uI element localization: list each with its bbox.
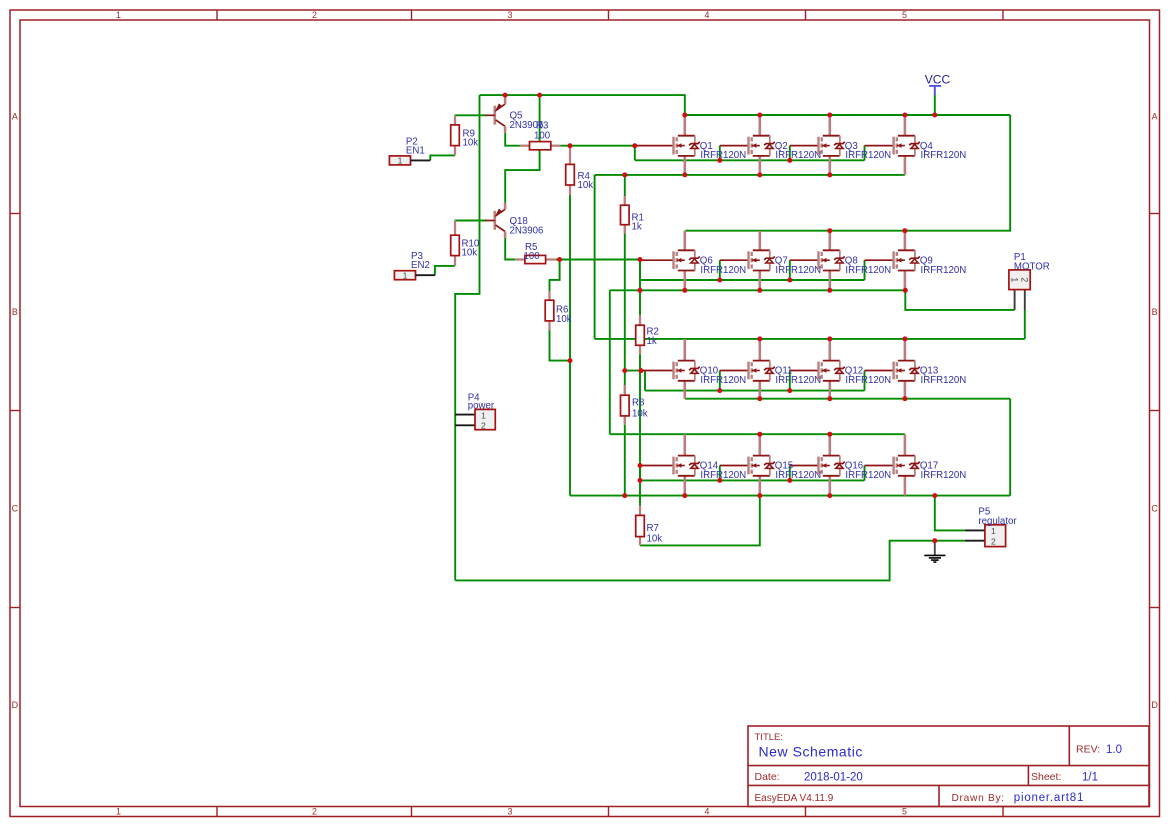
junction at 829.8,398.7: [827, 396, 832, 401]
junction at 829.8,338.9: [827, 336, 832, 341]
junction at 719.8,390.6: [717, 388, 722, 393]
svg-text:IRFR120N: IRFR120N: [845, 150, 891, 161]
svg-text:IRFR120N: IRFR120N: [845, 375, 891, 386]
svg-text:EN1: EN1: [406, 145, 425, 156]
junction at 829.8,495.6: [827, 493, 832, 498]
junction at 829.8,434.2: [827, 432, 832, 437]
svg-text:IRFR120N: IRFR120N: [845, 470, 891, 481]
junction at 759.8,115.0: [757, 113, 762, 118]
svg-text:4: 4: [705, 10, 710, 20]
svg-text:1: 1: [398, 156, 403, 166]
junction at 684.8,290.3: [682, 288, 687, 293]
wire P3 to R10 bottom: [435, 266, 455, 275]
wire R4 column (row1 gate to row4 source rail): [569, 146, 571, 496]
svg-text:C: C: [12, 504, 19, 514]
transistor Q4 (IRFR120N N-MOSFET): [894, 115, 967, 175]
connector P1 (MOTOR): [1009, 252, 1050, 310]
transistor Q1 (IRFR120N N-MOSFET): [674, 115, 747, 175]
junction at 829.8,115.0: [827, 113, 832, 118]
junction at 640.0,465.5: [638, 463, 643, 468]
transistor Q3 (IRFR120N N-MOSFET): [819, 115, 892, 175]
resistor R10: [451, 221, 480, 266]
wire left column from top rail to P4: [455, 95, 479, 580]
resistor R3: [520, 121, 561, 150]
svg-text:1.0: 1.0: [1106, 744, 1122, 756]
svg-text:R7: R7: [647, 523, 659, 534]
svg-text:IRFR120N: IRFR120N: [775, 150, 821, 161]
svg-text:1: 1: [991, 526, 996, 536]
wire row2 sources to row4 drains: [610, 290, 906, 434]
svg-text:IRFR120N: IRFR120N: [921, 375, 967, 386]
svg-text:2018-01-20: 2018-01-20: [804, 771, 863, 783]
transistor Q6 (IRFR120N N-MOSFET): [674, 231, 747, 291]
junction at 789.8,280.0: [787, 278, 792, 283]
junction at 505.1,95.1: [503, 93, 508, 98]
junction at 684.8,495.6: [682, 493, 687, 498]
transistor Q11 (IRFR120N N-MOSFET): [749, 339, 822, 399]
junction at 789.8,160.3: [787, 158, 792, 163]
svg-text:B: B: [1152, 307, 1158, 317]
junction at 719.8,280.0: [717, 278, 722, 283]
transistor Q9 (IRFR120N N-MOSFET): [894, 231, 967, 291]
wire row3 gate chain: [641, 371, 894, 391]
transistor Q12 (IRFR120N N-MOSFET): [819, 339, 892, 399]
junction at 570.0,145.7: [568, 143, 573, 148]
svg-text:1k: 1k: [632, 222, 642, 233]
transistor Q5 (2N3906 PNP): [485, 97, 543, 133]
resistor R6: [545, 291, 572, 331]
resistor R8: [621, 385, 648, 425]
svg-text:IRFR120N: IRFR120N: [700, 470, 746, 481]
svg-text:10k: 10k: [647, 534, 663, 545]
svg-text:power: power: [468, 401, 495, 412]
svg-text:Date:: Date:: [755, 771, 780, 783]
svg-text:IRFR120N: IRFR120N: [700, 265, 746, 276]
wire Q5 emitter to rail: [504, 95, 506, 98]
svg-text:1: 1: [481, 410, 486, 420]
svg-text:D: D: [12, 700, 18, 710]
transistor Q17 (IRFR120N N-MOSFET): [894, 434, 967, 495]
junction at 719.8,160.3: [717, 158, 722, 163]
junction at 640.0,480.4: [638, 478, 643, 483]
svg-text:2: 2: [1020, 277, 1030, 282]
wire Q5 base: [455, 114, 486, 116]
transistor Q10 (IRFR120N N-MOSFET): [674, 339, 747, 399]
svg-text:1: 1: [1009, 277, 1019, 282]
connector P5 (regulator): [965, 507, 1018, 547]
connector P2 (EN1): [389, 136, 430, 165]
wire R5 out to row2 gate node: [556, 259, 640, 261]
resistor R9: [451, 115, 479, 155]
svg-text:A: A: [1152, 112, 1158, 122]
wire row3 gate link: [625, 370, 641, 372]
svg-text:10k: 10k: [632, 409, 648, 420]
svg-text:1/1: 1/1: [1082, 771, 1098, 783]
svg-text:1k: 1k: [647, 336, 657, 347]
svg-text:3: 3: [508, 10, 513, 20]
junction at 634.8,145.7: [632, 143, 637, 148]
svg-text:pioner.art81: pioner.art81: [1014, 792, 1084, 804]
wire R7 bottom loop: [640, 496, 760, 546]
wire ground drop and P5 pin1: [935, 496, 965, 531]
junction at 624.8,370.6: [622, 368, 627, 373]
wire control column R2 R7: [639, 260, 641, 515]
svg-text:5: 5: [902, 10, 907, 20]
svg-text:10k: 10k: [578, 180, 594, 191]
junction at 641.0,370.6: [639, 368, 644, 373]
svg-text:regulator: regulator: [978, 516, 1017, 527]
svg-text:10k: 10k: [462, 248, 478, 259]
resistor R4: [566, 146, 594, 195]
resistor R1: [621, 196, 644, 234]
junction at 759.8,338.9: [757, 336, 762, 341]
svg-text:Drawn By:: Drawn By:: [952, 793, 1005, 804]
junction at 684.8,174.9: [682, 172, 687, 177]
svg-text:2N3906: 2N3906: [510, 225, 544, 236]
wire row2 source to P1 pin1: [905, 290, 1014, 310]
svg-text:2: 2: [481, 421, 486, 431]
junction at 684.8,115.0: [682, 113, 687, 118]
junction at 570.0,360.6: [568, 358, 573, 363]
svg-text:2: 2: [312, 807, 317, 817]
svg-text:C: C: [1151, 504, 1158, 514]
junction at 624.8,174.9: [622, 172, 627, 177]
junction at 934.8,495.6: [932, 493, 937, 498]
junction at 759.8,495.6: [757, 493, 762, 498]
svg-text:Sheet:: Sheet:: [1031, 771, 1061, 783]
ground: [924, 541, 945, 562]
svg-text:B: B: [12, 307, 18, 317]
junction at 759.8,290.3: [757, 288, 762, 293]
wire VCC top rail: [480, 95, 1011, 231]
svg-text:IRFR120N: IRFR120N: [845, 265, 891, 276]
svg-text:1: 1: [116, 807, 121, 817]
svg-text:IRFR120N: IRFR120N: [921, 265, 967, 276]
junction at 759.8,174.9: [757, 172, 762, 177]
transistor Q2 (IRFR120N N-MOSFET): [749, 115, 822, 175]
junction at 904.9,398.7: [902, 396, 907, 401]
wire ground return P4 to P5: [455, 541, 965, 581]
svg-text:IRFR120N: IRFR120N: [921, 470, 967, 481]
svg-text:IRFR120N: IRFR120N: [921, 150, 967, 161]
svg-text:IRFR120N: IRFR120N: [700, 150, 746, 161]
wire row2 gate chain: [640, 260, 894, 280]
svg-text:R8: R8: [632, 398, 644, 409]
svg-text:TITLE:: TITLE:: [755, 732, 784, 743]
transistor Q18 (2N3906 PNP): [485, 203, 543, 239]
wire VCC stem: [934, 95, 936, 115]
power VCC: [925, 73, 951, 96]
junction at 904.9,115.0: [902, 113, 907, 118]
junction at 640.0,259.5: [638, 257, 643, 262]
wire R5 node down to R6: [550, 260, 560, 292]
transistor Q13 (IRFR120N N-MOSFET): [894, 339, 967, 399]
resistor R2: [636, 315, 659, 355]
junction at 789.8,390.6: [787, 388, 792, 393]
wire row1 gate chain: [635, 146, 894, 161]
connector P4 (power): [455, 393, 495, 431]
wire Q18 collector to R5: [505, 238, 515, 260]
junction at 759.8,434.2: [757, 432, 762, 437]
svg-text:D: D: [1151, 700, 1157, 710]
junction at 904.9,230.7: [902, 228, 907, 233]
transistor Q16 (IRFR120N N-MOSFET): [819, 434, 892, 495]
wire row1 sources to row3 drains: [595, 175, 1025, 339]
junction at 934.8,115.0: [932, 113, 937, 118]
wire Q5 collector to R3: [505, 133, 520, 146]
svg-text:4: 4: [705, 807, 710, 817]
resistor R5: [515, 242, 556, 264]
svg-text:IRFR120N: IRFR120N: [775, 265, 821, 276]
junction at 640.0,290.3: [638, 288, 643, 293]
wire R1 R8 column: [624, 175, 626, 496]
svg-text:IRFR120N: IRFR120N: [775, 375, 821, 386]
svg-text:10k: 10k: [463, 138, 479, 149]
junction at 829.8,174.9: [827, 172, 832, 177]
svg-text:5: 5: [902, 807, 907, 817]
svg-text:2: 2: [312, 10, 317, 20]
transistor Q15 (IRFR120N N-MOSFET): [749, 434, 822, 495]
junction at 905.3,290.3: [903, 288, 908, 293]
junction at 904.9,338.9: [902, 336, 907, 341]
junction at 934.8,540.7: [932, 538, 937, 543]
svg-text:1: 1: [116, 10, 121, 20]
svg-text:100: 100: [524, 251, 541, 262]
title block: [748, 726, 1149, 807]
junction at 539.6,95.1: [537, 93, 542, 98]
junction at 829.8,290.3: [827, 288, 832, 293]
wire R6 bottom jog: [550, 331, 571, 361]
svg-text:New Schematic: New Schematic: [759, 744, 863, 760]
connector P3 (EN2): [394, 251, 435, 280]
svg-text:EN2: EN2: [411, 260, 430, 271]
svg-text:EasyEDA V4.11.9: EasyEDA V4.11.9: [755, 793, 834, 804]
svg-text:10k: 10k: [556, 314, 572, 325]
resistor R7: [636, 506, 663, 546]
svg-text:3: 3: [508, 807, 513, 817]
svg-text:A: A: [12, 112, 18, 122]
wire row3 source rail: [685, 391, 1010, 496]
wire row4 source rail: [570, 495, 1010, 497]
junction at 624.8,495.6: [622, 493, 627, 498]
svg-text:REV:: REV:: [1076, 744, 1100, 756]
svg-text:2: 2: [991, 537, 996, 547]
svg-text:IRFR120N: IRFR120N: [700, 375, 746, 386]
junction at 719.8,480.4: [717, 478, 722, 483]
wire rail drop to Q18 emitter: [505, 95, 539, 203]
junction at 829.8,230.7: [827, 228, 832, 233]
svg-text:1: 1: [403, 270, 408, 280]
transistor Q7 (IRFR120N N-MOSFET): [749, 231, 822, 291]
wire Q18 base: [455, 220, 486, 222]
svg-text:MOTOR: MOTOR: [1014, 261, 1050, 272]
junction at 789.8,480.4: [787, 478, 792, 483]
transistor Q8 (IRFR120N N-MOSFET): [819, 231, 892, 291]
junction at 759.8,398.7: [757, 396, 762, 401]
svg-text:VCC: VCC: [925, 73, 951, 87]
svg-text:100: 100: [534, 131, 551, 142]
transistor Q14 (IRFR120N N-MOSFET): [674, 434, 747, 495]
wire R3 out to row1 gate node: [560, 145, 634, 147]
wire P2 to R9 bottom: [430, 155, 455, 160]
wire P1 pin2 to row3 drain rail: [1024, 310, 1026, 339]
junction at 559.6,259.5: [557, 257, 562, 262]
wire row4 gate chain: [640, 466, 894, 481]
svg-text:IRFR120N: IRFR120N: [775, 470, 821, 481]
